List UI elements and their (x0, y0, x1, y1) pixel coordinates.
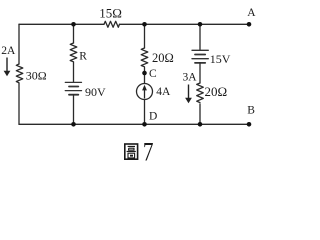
node junction dot top middle (142, 22, 147, 27)
svg-text:15Ω: 15Ω (99, 6, 122, 21)
node junction dot bottom right (198, 122, 203, 127)
resistor 15ohm top (104, 21, 119, 27)
node junction dot top R (71, 22, 76, 27)
svg-text:3A: 3A (183, 72, 198, 84)
wire battery to bottom (73, 95, 75, 125)
resistor 30ohm (16, 64, 23, 83)
wire battery to resistor (199, 63, 201, 83)
battery 90V (65, 82, 81, 94)
resistor 20ohm middle (141, 48, 148, 67)
node B terminal dot (247, 122, 252, 127)
node D junction dot (142, 122, 147, 127)
wire top rail right (120, 23, 250, 25)
svg-text:20Ω: 20Ω (152, 51, 174, 65)
resistor R (70, 43, 77, 62)
node junction dot bottom R (71, 122, 76, 127)
wire node C (144, 68, 146, 84)
caption figure glyph (CJK drawn) (125, 144, 138, 159)
node C dot (142, 71, 147, 76)
node junction dot top right (198, 22, 203, 27)
arrow 2A current direction (4, 58, 11, 77)
svg-text:4A: 4A (156, 86, 171, 98)
svg-text:7: 7 (143, 138, 154, 166)
wire left top (18, 24, 20, 64)
svg-text:C: C (149, 68, 157, 80)
wire R to battery (73, 62, 75, 82)
battery 15V (192, 50, 208, 63)
wire bottom rail (19, 123, 249, 125)
wire middle branch top (144, 24, 146, 48)
svg-text:15V: 15V (210, 52, 231, 66)
wire source to bottom (144, 100, 146, 125)
svg-text:2A: 2A (1, 45, 16, 57)
svg-text:B: B (247, 105, 255, 117)
arrow inside 4A source (142, 85, 147, 99)
arrow 3A current direction (185, 85, 192, 104)
svg-text:30Ω: 30Ω (26, 68, 47, 82)
wire right branch top (199, 24, 201, 50)
wire left bottom (18, 83, 20, 124)
node A terminal dot (247, 22, 252, 27)
svg-text:D: D (149, 111, 157, 123)
svg-text:R: R (79, 51, 87, 63)
current source 4A circle (137, 84, 153, 100)
svg-text:90V: 90V (85, 85, 106, 99)
wire resistor to bottom (199, 104, 201, 124)
wire R branch top (73, 24, 75, 43)
svg-text:20Ω: 20Ω (205, 84, 228, 99)
wire top rail left (19, 23, 104, 25)
svg-text:A: A (247, 7, 256, 19)
resistor 20ohm right (197, 83, 204, 103)
